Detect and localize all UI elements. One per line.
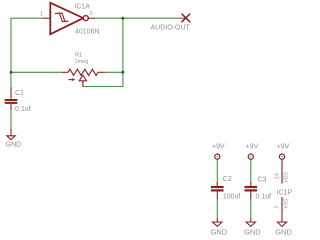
svg-text:C1: C1 [15, 90, 24, 97]
svg-text:+9V: +9V [277, 144, 290, 151]
svg-text:0.1uf: 0.1uf [256, 194, 272, 201]
svg-text:+9V: +9V [212, 144, 225, 151]
svg-text:IC1P: IC1P [277, 190, 293, 197]
svg-text:GND: GND [244, 228, 261, 237]
svg-text:1: 1 [40, 12, 43, 18]
svg-text:GND: GND [275, 228, 292, 237]
svg-text:100uf: 100uf [223, 194, 241, 201]
svg-text:14: 14 [275, 173, 281, 179]
svg-text:VSS: VSS [284, 198, 290, 209]
svg-text:AUDIO-OUT: AUDIO-OUT [151, 25, 191, 32]
svg-text:GND: GND [5, 140, 21, 149]
svg-text:VDD: VDD [284, 172, 290, 183]
svg-text:40106N: 40106N [75, 29, 100, 36]
svg-text:2: 2 [90, 11, 93, 17]
svg-text:IC1A: IC1A [74, 3, 90, 10]
svg-text:7: 7 [275, 205, 281, 208]
svg-text:C3: C3 [258, 177, 267, 184]
svg-text:+9V: +9V [246, 144, 259, 151]
svg-text:1meg: 1meg [74, 59, 88, 65]
svg-text:GND: GND [211, 228, 228, 237]
svg-text:0.1uf: 0.1uf [15, 106, 31, 113]
svg-text:R1: R1 [75, 52, 82, 58]
svg-text:C2: C2 [223, 176, 232, 183]
